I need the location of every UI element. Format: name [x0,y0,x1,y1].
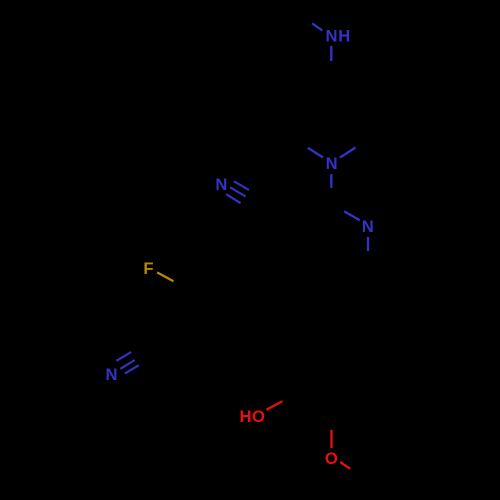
wire: nitrile 2 triple bond line 2 blue half [120,360,134,369]
svg-text:O: O [325,449,338,468]
wire: bond O(H)-C red half [266,401,282,410]
wire: bond N1-C2 piperidine blue half [308,148,323,158]
wire: bond NH-C4(piperidine) blue half [330,46,332,61]
wire: bond Npy-C blue half [367,237,369,251]
svg-text:N: N [326,27,338,46]
svg-text:N: N [106,365,118,384]
svg-text:N: N [215,175,227,194]
svg-text:H: H [240,407,252,426]
svg-text:F: F [143,259,153,278]
svg-text:O: O [252,407,265,426]
wire: bond N1-Ca blue half [330,174,332,188]
wire: bond C-O(methoxy) red half [330,430,332,448]
wire: nitrile 2 triple bond line 3 blue half [125,365,139,373]
wire: bond F-C gold half [157,272,173,281]
wire: bond Ca-Npy blue half [344,211,360,220]
wire: nitrile 2 triple bond line 1 blue half [116,352,131,361]
wire: nitrile 1 triple bond line 1 blue half [234,181,249,190]
wire: nitrile 1 triple bond line 2 blue half [230,187,246,196]
wire: bond N1-C6 piperidine blue half [340,148,356,158]
svg-text:N: N [326,154,338,173]
wire: bond N(methyl)-CH3 blue half [312,23,322,30]
svg-text:N: N [362,217,374,236]
wire: bond O-CH3 red half [340,462,350,469]
svg-text:H: H [338,27,350,46]
wire: nitrile 1 triple bond line 3 blue half [226,194,240,203]
